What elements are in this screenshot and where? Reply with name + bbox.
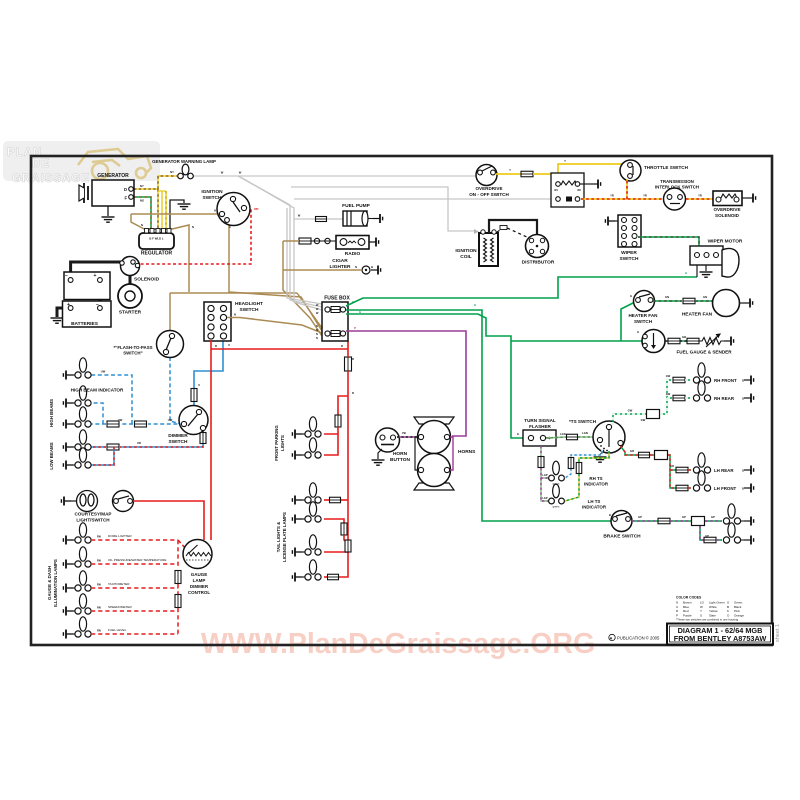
wire Y regulator pair horizontal — [158, 190, 166, 192]
label tail lights and license plate lamps rotated — [276, 512, 287, 562]
regulator — [139, 229, 174, 250]
svg-text:RN: RN — [97, 629, 101, 633]
svg-text:PB: PB — [402, 431, 406, 435]
wire N regulator A to vertical bus — [168, 225, 189, 292]
svg-text:W: W — [221, 171, 224, 175]
wire R tail join a — [344, 535, 348, 543]
ground panel lamp FUEL LEVEL — [63, 630, 73, 639]
svg-text:W: W — [298, 214, 301, 218]
svg-text:BATTERIES: BATTERIES — [71, 321, 99, 327]
wire R front parking to lamp2 — [324, 434, 338, 455]
wire R front parking to lamp1 — [324, 427, 338, 434]
svg-text:YR: YR — [698, 194, 702, 198]
wire battery1 to battery2 link — [98, 280, 101, 308]
heater fan switch — [634, 291, 655, 312]
wire hb lower lead — [66, 423, 76, 425]
wire GY ts to lh indicator — [565, 451, 609, 501]
wire WR red dashed ignition to solenoid — [139, 208, 251, 264]
svg-text:RH TS: RH TS — [589, 476, 602, 481]
svg-text:LICENSE PLATE LAMPS: LICENSE PLATE LAMPS — [282, 512, 287, 562]
wire UW indicator branch — [91, 375, 132, 424]
svg-text:CIGAR: CIGAR — [332, 258, 348, 264]
wire RN panel bus vertical — [177, 540, 179, 567]
ground courtesy lamp — [61, 497, 71, 506]
wire RN panel bus vertical 3 — [177, 608, 179, 634]
svg-text:N: N — [141, 223, 143, 227]
svg-text:GAUGE & DASH: GAUGE & DASH — [47, 566, 52, 600]
wire PB horn button to horns — [397, 436, 417, 438]
wire tail lamp lead 552 — [295, 551, 306, 553]
svg-text:DISTRIBUTOR: DISTRIBUTOR — [522, 260, 555, 266]
fuse fuel pump line — [316, 217, 327, 222]
ground high beam lower — [63, 420, 73, 429]
svg-text:SWITCH”: SWITCH” — [123, 351, 143, 356]
svg-text:FUEL PUMP: FUEL PUMP — [342, 203, 370, 209]
svg-text:GENERATOR: GENERATOR — [97, 173, 129, 179]
svg-text:G: G — [630, 294, 632, 298]
wire GR connector to vertical — [668, 455, 676, 488]
wire N headlight switch to fuse box — [227, 318, 322, 334]
svg-text:UW: UW — [101, 370, 106, 374]
tail lamp 500 — [305, 483, 321, 503]
cigar lighter — [362, 266, 370, 274]
wire N radio bus vertical — [283, 241, 322, 336]
wire G branch to fuel gauge — [511, 340, 642, 342]
wiper motor — [690, 246, 739, 277]
ground panel lamp SPEEDOMETER — [63, 607, 73, 616]
color codes legend — [676, 596, 744, 622]
wire N ignition switch A down — [227, 221, 322, 331]
wire NG generator F to regulator F — [134, 197, 151, 230]
fuse panel bus 1 — [175, 571, 181, 584]
rh front lamp — [693, 363, 710, 383]
svg-text:PUBLICATION © 2005: PUBLICATION © 2005 — [617, 636, 660, 641]
wiper switch — [618, 215, 641, 247]
fuse tail lamp4 — [328, 574, 339, 580]
wire heater fan to ground — [740, 302, 744, 304]
transmission interlock switch — [664, 188, 686, 210]
svg-text:RN: RN — [97, 559, 101, 563]
ts switch — [593, 421, 625, 453]
wire panel lamp lead FUEL LEVEL — [66, 633, 76, 635]
svg-text:SWITCH: SWITCH — [169, 439, 188, 445]
svg-text:TURN SIGNAL: TURN SIGNAL — [524, 418, 556, 423]
fuse high beam 2 — [107, 421, 119, 427]
ground panel lamp DOME LIGHTER — [63, 536, 73, 545]
svg-text:SWITCH: SWITCH — [203, 195, 222, 201]
wire LGP flasher down — [540, 446, 542, 456]
svg-text:U: U — [198, 383, 200, 387]
ground fuel pump — [373, 214, 383, 223]
svg-text:G: G — [359, 310, 361, 314]
wire GW to rh front — [685, 379, 690, 381]
svg-text:IGNITION: IGNITION — [455, 248, 477, 254]
svg-text:*These two switches are combin: *These two switches are combined in one … — [676, 618, 739, 622]
fuse GR — [639, 452, 650, 458]
svg-text:STARTER: STARTER — [119, 310, 142, 316]
ground tail lamp 500 — [292, 496, 302, 505]
wire NY junction up to warning lamp — [158, 176, 177, 189]
wire wiper switch gnd lead — [608, 220, 618, 222]
brake lamp b — [723, 523, 740, 543]
svg-text:HEATER FAN: HEATER FAN — [682, 312, 713, 318]
svg-text:LGN: LGN — [560, 432, 566, 436]
fuse radio line — [299, 238, 311, 244]
low beam upper lamp — [75, 430, 91, 450]
wire UR fuse to lamp — [91, 446, 106, 448]
svg-text:RH FRONT: RH FRONT — [714, 378, 737, 383]
svg-text:LH TS: LH TS — [588, 499, 601, 504]
label front parking lights rotated — [274, 425, 285, 461]
svg-text:BUTTON: BUTTON — [390, 457, 410, 463]
fuse od yellow — [521, 171, 533, 177]
fuse lh front — [676, 485, 688, 491]
wire GW junction to vertical — [660, 380, 672, 414]
wire YR tis to od solenoid — [686, 198, 714, 200]
svg-text:GW: GW — [666, 374, 671, 378]
ground lh rear — [744, 466, 754, 475]
wire GN heater switch to fan — [653, 300, 682, 302]
svg-text:B: B — [609, 513, 611, 517]
fuel sender rheostat — [699, 334, 724, 347]
wire panel lamp lead OIL PRESSURE/WATER TEMPERATURE — [66, 563, 76, 565]
ground cigar lighter — [371, 266, 381, 275]
svg-text:N: N — [234, 313, 236, 317]
battery 1 — [64, 272, 110, 300]
wire UW to low high beam lamp — [91, 423, 106, 425]
fuse LGW — [568, 458, 574, 469]
svg-text:UW: UW — [168, 418, 173, 422]
ground low beam upper — [63, 443, 73, 452]
horn upper — [414, 417, 454, 454]
svg-text:HORN: HORN — [393, 451, 408, 457]
label FLASH-TO-PASS SWITCH — [113, 345, 152, 356]
svg-text:GW: GW — [628, 409, 633, 413]
wire U headlight sw to dimmer — [194, 341, 223, 388]
wire Y fuse to relay — [533, 174, 556, 181]
label CIGAR LIGHTER — [329, 258, 351, 270]
svg-text:RADIO: RADIO — [345, 251, 361, 257]
ground low beam lower — [63, 461, 73, 470]
wire GP fuse to connector — [670, 520, 691, 522]
fuse LGN — [567, 434, 578, 440]
wire R headlight to gauge dimmer — [210, 502, 212, 540]
ground high beam upper — [63, 399, 73, 408]
fuse panel bus 2 — [175, 595, 181, 608]
dimmer switch — [179, 406, 208, 435]
svg-text:GRAISSAGE: GRAISSAGE — [12, 173, 90, 185]
wire GB fuel gauge to sender — [665, 340, 668, 342]
svg-text:FUEL GAUGE & SENDER: FUEL GAUGE & SENDER — [676, 350, 732, 355]
ground rh front — [744, 376, 754, 385]
svg-text:B: B — [742, 379, 744, 383]
wire W bus vertical 1 — [290, 205, 322, 307]
label LH TS INDICATOR — [582, 499, 607, 510]
wire hb upper lead — [66, 402, 76, 404]
svg-text:WIPER: WIPER — [621, 250, 637, 256]
svg-text:−: − — [65, 273, 68, 279]
svg-text:G: G — [517, 432, 519, 436]
wire N cigar lighter — [283, 269, 361, 271]
front parking lamp 455 — [305, 438, 321, 458]
wire R tail fuse4 to bus — [339, 572, 348, 577]
wire G branch to heater switch — [621, 302, 635, 341]
wire RN bus to dimmer control — [178, 540, 186, 549]
front parking lamp 434 — [305, 417, 321, 437]
svg-text:NY: NY — [170, 170, 174, 174]
label HORN BUTTON — [390, 451, 410, 463]
svg-text:LAMP: LAMP — [193, 578, 206, 583]
wire R tail fuse to bus — [341, 499, 348, 501]
wire RN panel bus vertical 2 — [177, 584, 179, 595]
wire N fuse to radio — [283, 240, 299, 242]
fuse LGP — [538, 457, 544, 468]
brake switch — [611, 511, 632, 532]
label gauge and dash illumination lamps rotated — [47, 559, 58, 607]
lh ts indicator lamp — [549, 484, 565, 504]
label gauge lamp dimmer control — [188, 572, 210, 595]
wire generator earth lead — [107, 206, 109, 216]
fuse box — [322, 302, 348, 341]
headlight switch — [204, 302, 231, 341]
label IGNITION SWITCH — [201, 189, 223, 201]
svg-text:LGP: LGP — [542, 496, 548, 500]
wire high beam indicator lead — [66, 374, 76, 376]
svg-text:sheet 1: sheet 1 — [775, 624, 781, 642]
fuse UR vertical — [200, 433, 206, 444]
panel lamp DOME LIGHTER — [75, 523, 91, 543]
wire NG wiper switch to motor — [638, 237, 699, 247]
gauge lamp dimmer control — [183, 540, 212, 569]
wire RN panel lamp SPEEDOMETER — [91, 610, 178, 612]
low beam lower lamp — [75, 448, 91, 468]
svg-text:RN: RN — [97, 583, 101, 587]
ground regulator earth — [178, 204, 191, 209]
horn lower — [414, 454, 454, 491]
fuse lh rear — [676, 467, 688, 473]
wire coil HT to distributor — [489, 220, 537, 242]
wire LGP to lh indicator — [541, 478, 548, 501]
svg-text:FUEL LEVEL: FUEL LEVEL — [108, 628, 127, 632]
svg-text:LGP: LGP — [542, 473, 548, 477]
svg-text:UW: UW — [118, 418, 123, 422]
wire Y regulator vertical 1 — [161, 191, 163, 230]
svg-text:LGN: LGN — [582, 431, 588, 435]
label GAUGE AND DASH ILLUMINATION LAMPS — [0, 0, 1, 1]
ground front parking lamp 455 — [292, 451, 302, 460]
wire N horizontal feed bus — [170, 292, 297, 294]
svg-text:FROM BENTLEY A8753AW: FROM BENTLEY A8753AW — [674, 634, 767, 643]
wire Y relay to throttle switch — [558, 164, 629, 181]
svg-text:F: F — [124, 196, 127, 201]
svg-text:R: R — [352, 357, 354, 361]
wire panel lamp lead SPEEDOMETER — [66, 610, 76, 612]
ground generator earth — [102, 217, 115, 222]
svg-text:GW: GW — [641, 418, 646, 422]
wire lb upper lead — [66, 446, 76, 448]
label OVERDRIVE SOLENOID — [713, 207, 740, 218]
svg-text:HORNS: HORNS — [458, 449, 476, 455]
svg-text:SWITCH: SWITCH — [240, 307, 259, 313]
wire NY generator D to junction — [134, 188, 158, 190]
wire solenoid to starter thick — [129, 275, 132, 285]
svg-text:W: W — [239, 171, 242, 175]
points dashed link — [497, 227, 529, 238]
wire R headlight switch to parking bus — [211, 348, 348, 350]
wire battery2 to earth — [57, 308, 71, 317]
wire tail lamp lead 577 — [295, 576, 306, 578]
wire W fuse to fuel pump — [327, 218, 343, 220]
connector brake — [692, 517, 705, 526]
wire UW upper high beam branch — [91, 403, 103, 424]
wire UW between fuses — [120, 423, 133, 425]
horn button — [376, 428, 400, 452]
turn signal flasher — [523, 430, 556, 446]
wire battery1 to solenoid thick — [71, 262, 122, 280]
svg-text:LH FRONT: LH FRONT — [714, 486, 737, 491]
panel lamp SPEEDOMETER — [75, 594, 91, 614]
ground battery earth — [51, 318, 64, 323]
svg-text:G: G — [637, 330, 639, 334]
svg-text:Y: Y — [509, 168, 511, 172]
ground heater fan — [743, 299, 753, 308]
wire horn button earth — [378, 449, 382, 459]
wire R headlight switch down — [210, 340, 212, 349]
tail lamp 552 — [305, 535, 321, 555]
ground panel lamp TACHOMETER — [63, 584, 73, 593]
wire GB sender mid — [680, 340, 687, 342]
ground high beam indicator — [63, 371, 73, 380]
wire YR throttle branch — [626, 179, 628, 199]
svg-text:OVERDRIVE: OVERDRIVE — [713, 207, 740, 212]
wire U fuse to dimmer switch — [193, 402, 195, 407]
ignition coil — [479, 230, 498, 266]
svg-text:GP: GP — [638, 515, 642, 519]
wire UR dimmer to low beams — [120, 430, 203, 447]
label IGNITION COIL — [455, 248, 477, 260]
svg-text:GW: GW — [666, 392, 671, 396]
fuse tail bus b — [345, 540, 351, 552]
distributor — [526, 235, 549, 258]
wire E regulator black to earth — [170, 200, 184, 230]
svg-text:COIL: COIL — [460, 254, 472, 260]
wire LGN fuse to ts switch — [578, 436, 593, 438]
connector GR — [655, 451, 668, 460]
wire LGW ts to rh indicator — [565, 449, 602, 478]
wire panel lamp lead DOME LIGHTER — [66, 539, 76, 541]
svg-text:GN: GN — [703, 295, 707, 299]
svg-text:N: N — [316, 329, 318, 332]
wire W bus vertical 3 — [287, 208, 322, 304]
fuse box left pin labels — [316, 304, 319, 340]
svg-text:RH REAR: RH REAR — [714, 396, 735, 401]
label HEADLIGHT SWITCH — [235, 301, 263, 313]
ground front parking lamp 434 — [292, 430, 302, 439]
wire G fusebox to brake switch — [346, 310, 611, 521]
wire R bus fusebox down — [347, 341, 349, 357]
fuse rh front — [673, 377, 685, 383]
wire UR lower low beam branch — [91, 447, 114, 465]
svg-text:SWITCH: SWITCH — [620, 256, 639, 262]
label DIMMER SWITCH — [168, 433, 188, 445]
svg-text:B: B — [371, 265, 373, 269]
wire RN panel lamp DOME LIGHTER — [91, 539, 178, 541]
svg-text:B: B — [742, 469, 744, 473]
wire W to fuel pump — [294, 218, 315, 220]
svg-text:INDICATOR: INDICATOR — [584, 482, 609, 487]
wire YR relay to tis — [581, 198, 662, 200]
ground wiper switch — [605, 217, 615, 226]
wire RN panel lamp TACHOMETER — [91, 587, 178, 589]
generator G1 — [79, 180, 134, 206]
wire N bus diagonal into fuse box — [297, 293, 322, 328]
svg-text:TRANSMISSION: TRANSMISSION — [660, 179, 694, 184]
label HEATER FAN SWITCH — [628, 313, 658, 324]
courtesy/map switch — [113, 491, 134, 512]
wire brake lamp a gnd — [741, 520, 745, 522]
svg-text:LIGHTS: LIGHTS — [280, 435, 285, 451]
panel lamp TACHOMETER — [75, 571, 91, 591]
ground ts switch — [594, 457, 607, 462]
svg-text:DIMMER: DIMMER — [190, 584, 209, 589]
wire GW rh rear branch — [667, 397, 672, 399]
svg-text:CONTROL: CONTROL — [188, 590, 210, 595]
svg-text:GB: GB — [682, 335, 686, 339]
panel lamp OIL PRESSURE/WATER TEMPERATURE — [75, 547, 91, 567]
ground overdrive solenoid — [746, 194, 756, 203]
courtesy/map light — [77, 491, 98, 512]
panel lamp FUEL LEVEL — [75, 617, 91, 637]
svg-text:GP: GP — [705, 534, 709, 538]
svg-text:GN: GN — [665, 295, 669, 299]
wire GP brake to fuse — [632, 520, 658, 522]
wire radio to ground — [369, 241, 371, 243]
wire relay W2 to ground — [580, 183, 591, 185]
svg-text:N: N — [355, 265, 357, 269]
wire UW dimmer to high beams — [148, 423, 184, 425]
wire GW ts to junction — [613, 414, 646, 425]
ground brake lamp b — [744, 536, 754, 545]
wire P horns link — [450, 437, 453, 470]
svg-text:G: G — [474, 303, 476, 307]
svg-text:A: A — [229, 225, 231, 229]
svg-text:ILLUMINATION LAMPS: ILLUMINATION LAMPS — [53, 559, 58, 607]
svg-text:R: R — [352, 391, 354, 395]
connector GW — [647, 410, 660, 419]
fuse tail bus a — [341, 523, 347, 535]
wire R bus below fuse — [347, 371, 349, 572]
svg-text:HIGH BEAM INDICATOR: HIGH BEAM INDICATOR — [71, 388, 124, 393]
wire panel lamp lead TACHOMETER — [66, 587, 76, 589]
wire W branch down to white bus — [238, 176, 290, 205]
svg-text:NY: NY — [140, 184, 144, 188]
ground wiper motor — [700, 272, 713, 277]
battery 2 — [63, 301, 112, 327]
wire R tail lamp4 — [324, 576, 327, 578]
wire GR fuse to connector — [650, 454, 655, 456]
fuse dimmer feed — [191, 389, 197, 402]
ground fuel sender — [724, 337, 734, 346]
svg-text:HIGH BEAMS: HIGH BEAMS — [49, 399, 54, 427]
wire GN fuse to heater fan — [695, 300, 712, 302]
wire GP to brake lamp b — [716, 539, 722, 541]
flash-to-pass switch — [157, 331, 184, 358]
svg-text:NG: NG — [140, 199, 144, 203]
wire lb lower lead — [66, 464, 76, 466]
wire RN panel lamp OIL PRESSURE/WATER TEMPERATURE — [91, 563, 178, 565]
wire W bus vertical 2 — [242, 178, 322, 310]
lh rear lamp — [693, 453, 710, 473]
